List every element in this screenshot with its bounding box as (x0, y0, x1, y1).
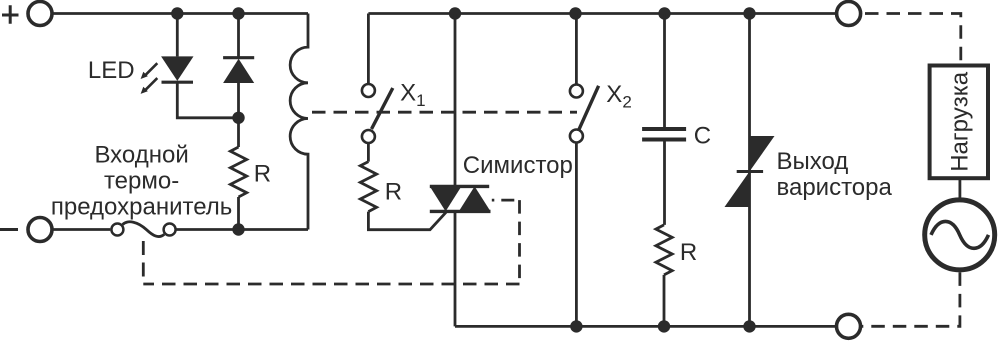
node bottom rail varistor (743, 320, 755, 332)
terminal T2 minus (28, 218, 52, 242)
dashed link fuse vertical (142, 241, 145, 284)
wire X1 to R2 (367, 143, 370, 162)
resistor R3 (656, 225, 672, 275)
wire top rail segment 2 (368, 12, 836, 15)
terminal T3 top right (837, 2, 861, 26)
svg-text:Нагрузка: Нагрузка (946, 71, 973, 172)
dash-dot triac gate link (492, 199, 520, 202)
svg-text:варистора: варистора (777, 174, 893, 201)
wire load box to AC source (959, 178, 962, 201)
label minus terminal (0, 228, 18, 231)
node bottom rail R3 (658, 320, 670, 332)
wire R2 to triac gate (368, 212, 446, 230)
svg-text:R: R (680, 239, 697, 266)
svg-text:X2: X2 (606, 81, 631, 112)
LED D1 (141, 56, 194, 94)
svg-text:предохранитель: предохранитель (51, 194, 232, 221)
svg-text:C: C (694, 122, 711, 149)
svg-text:X1: X1 (400, 80, 425, 111)
dashed wire to load box top (861, 14, 961, 64)
capacitor C1 (642, 14, 686, 225)
diode D2 (antiparallel) (223, 14, 254, 148)
triac VS1 (430, 14, 491, 327)
coil L1 (290, 14, 308, 230)
switch X2 (570, 14, 599, 327)
switch X1 (362, 84, 393, 143)
varistor RU1 (725, 14, 775, 327)
wire LED bottom to node (177, 82, 238, 118)
fuse F1 (thermal) (111, 222, 175, 237)
wire fuse to coil (176, 228, 308, 231)
dashed control link coil to switches (312, 111, 577, 114)
svg-text:LED: LED (88, 57, 135, 84)
node bottom rail X2 (570, 320, 582, 332)
dashed link bottom horizontal (143, 283, 519, 286)
label + (plus terminal) (2, 5, 19, 23)
dashed link right vertical (518, 200, 521, 284)
svg-text:термо-: термо- (104, 168, 179, 195)
bottom rail (455, 325, 837, 328)
resistor R2 (360, 162, 376, 212)
node on rail (diode branch) (232, 7, 244, 19)
wire X1 branch top (367, 14, 370, 85)
svg-text:R: R (254, 161, 271, 188)
wire minus to fuse (52, 228, 110, 231)
node rail triac (449, 7, 461, 19)
node junction LED/diode (232, 112, 244, 124)
wire R3 to bottom rail (663, 275, 666, 327)
svg-text:Входной: Входной (94, 142, 188, 169)
node on rail (LED branch) (171, 7, 183, 19)
node rail C (658, 7, 670, 19)
svg-text:R: R (385, 179, 402, 206)
dashed wire AC source to bottom terminal (861, 272, 960, 326)
wire LED branch top (176, 14, 179, 57)
terminal T4 bottom right (837, 314, 861, 338)
node rail varistor (743, 7, 755, 19)
node rail X2 (569, 7, 581, 19)
wire top-left rail (52, 12, 308, 15)
AC source G1 (925, 200, 995, 270)
node on bottom-left wire (232, 223, 244, 235)
svg-text:Симистор: Симистор (463, 152, 573, 179)
svg-text:Выход: Выход (777, 148, 849, 175)
terminal T1 plus (28, 2, 52, 26)
wire R1 to bottom wire (237, 197, 240, 230)
resistor R1 (230, 147, 246, 197)
load box (930, 66, 988, 179)
